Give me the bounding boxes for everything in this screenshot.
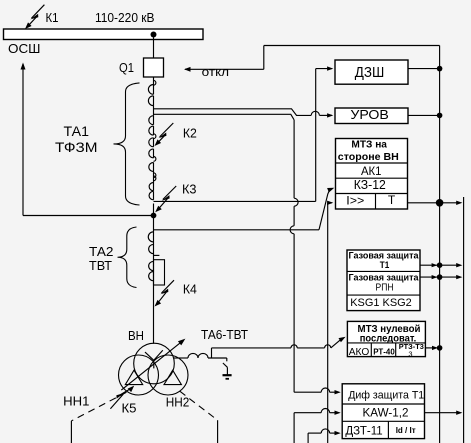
svg-text:стороне ВН: стороне ВН	[338, 151, 399, 163]
svg-text:КЗ-12: КЗ-12	[354, 178, 386, 192]
svg-text:МТЗ на: МТЗ на	[351, 139, 387, 150]
svg-text:ДЗШ: ДЗШ	[355, 65, 385, 81]
svg-text:ТВТ: ТВТ	[89, 258, 112, 273]
svg-text:ТФЗМ: ТФЗМ	[55, 140, 98, 155]
svg-text:Q1: Q1	[119, 60, 134, 75]
svg-text:ДЗТ-11: ДЗТ-11	[345, 425, 382, 437]
svg-text:110-220 кВ: 110-220 кВ	[95, 10, 155, 25]
svg-text:Газовая защита: Газовая защита	[349, 251, 420, 261]
svg-text:К2: К2	[183, 125, 197, 140]
svg-text:KSG1 KSG2: KSG1 KSG2	[350, 297, 412, 309]
svg-text:KAW-1,2: KAW-1,2	[363, 408, 409, 420]
svg-text:К4: К4	[183, 282, 197, 297]
svg-text:Т: Т	[388, 193, 396, 207]
svg-text:АКО: АКО	[349, 346, 370, 358]
svg-text:Id / Iт: Id / Iт	[396, 425, 416, 435]
svg-text:УРОВ: УРОВ	[350, 108, 389, 122]
svg-text:I>>: I>>	[346, 193, 364, 207]
svg-text:К5: К5	[122, 401, 137, 416]
svg-text:Диф защита Т1: Диф защита Т1	[348, 390, 424, 402]
svg-text:РПН: РПН	[376, 282, 394, 294]
svg-text:3: 3	[408, 349, 412, 358]
svg-text:Т1: Т1	[380, 260, 390, 271]
svg-text:К1: К1	[46, 10, 59, 25]
svg-text:РТ-40: РТ-40	[373, 347, 395, 357]
svg-text:НН2: НН2	[166, 394, 190, 409]
svg-text:НН1: НН1	[63, 394, 89, 409]
svg-text:ВН: ВН	[128, 328, 144, 343]
svg-text:ТА2: ТА2	[89, 244, 114, 259]
svg-text:откл: откл	[202, 65, 230, 79]
svg-text:ТА6-ТВТ: ТА6-ТВТ	[201, 328, 248, 342]
svg-text:К3: К3	[182, 182, 197, 197]
svg-text:ТА1: ТА1	[64, 124, 90, 139]
svg-text:ОСШ: ОСШ	[8, 41, 41, 56]
svg-text:АК1: АК1	[361, 164, 382, 178]
